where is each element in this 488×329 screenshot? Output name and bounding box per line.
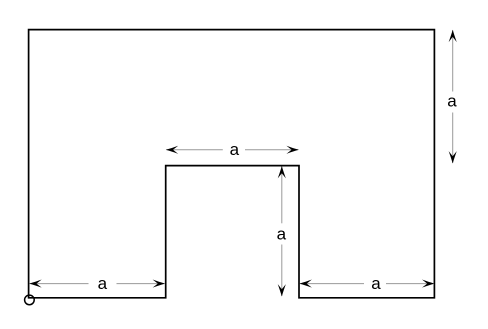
- arrowhead right: [286, 146, 298, 154]
- svg-text:a: a: [277, 225, 287, 244]
- wire: [281, 245, 283, 297]
- arrowhead left: [300, 280, 312, 288]
- wire: [245, 149, 298, 151]
- wire: [452, 113, 454, 164]
- wire: [30, 283, 89, 285]
- arrowhead left: [166, 146, 178, 154]
- wire: [166, 149, 223, 151]
- dimension arrow: inside notch vertical 'a': [277, 166, 287, 297]
- arrowhead up: [278, 166, 286, 178]
- dimension arrow: bottom-left horizontal 'a': [29, 274, 165, 293]
- wire: [452, 30, 454, 91]
- origin marker circle at bottom-left corner: [25, 295, 35, 305]
- svg-text:a: a: [230, 140, 240, 159]
- wire: [386, 283, 434, 285]
- arrowhead right: [422, 280, 434, 288]
- dimension arrow: bottom-right horizontal 'a': [300, 274, 435, 293]
- arrowhead down: [449, 151, 457, 163]
- arrowhead up: [449, 30, 457, 42]
- wire: [281, 167, 283, 224]
- wire: [117, 283, 165, 285]
- dimension arrow: notch top horizontal 'a': [166, 140, 299, 159]
- arrowhead left: [29, 280, 41, 288]
- svg-text:a: a: [447, 91, 457, 110]
- arrowhead down: [278, 284, 286, 296]
- wire: [300, 283, 364, 285]
- arrowhead right: [153, 280, 165, 288]
- shape outline: rectangle with square notch cut from bottom center: [29, 30, 435, 298]
- dimension arrow: right side vertical 'a' (top edge to notch-top level): [447, 30, 457, 164]
- svg-text:a: a: [98, 274, 108, 293]
- svg-text:a: a: [371, 274, 381, 293]
